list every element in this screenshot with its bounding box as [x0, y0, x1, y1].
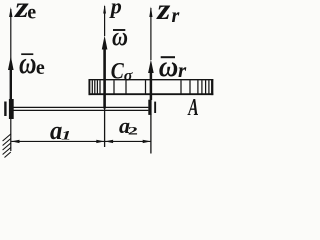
label z_r: [156, 0, 179, 27]
svg-text:C: C: [111, 58, 125, 84]
bearing right (hub blocks at shaft end): [148, 100, 156, 115]
svg-text:z: z: [156, 0, 171, 26]
svg-text:ω: ω: [112, 23, 128, 51]
svg-text:r: r: [178, 58, 187, 82]
svg-text:1: 1: [61, 128, 71, 142]
label ω̄_e: [19, 46, 45, 81]
svg-text:2: 2: [128, 124, 138, 138]
svg-text:ω: ω: [159, 51, 179, 84]
svg-text:r: r: [172, 5, 180, 27]
axis line z_r (right vertical line): [149, 7, 152, 154]
rotor A (long disc body, sectioned rectangle): [89, 79, 214, 95]
label C_σ: [111, 58, 133, 85]
svg-text:σ: σ: [124, 68, 133, 85]
svg-text:e: e: [27, 2, 36, 24]
svg-text:ω: ω: [19, 46, 36, 81]
svg-text:p: p: [109, 0, 122, 18]
axis line p (middle vertical line): [103, 5, 106, 148]
bearing left (thrust bearing blocks): [4, 99, 14, 119]
label ω̄: [112, 23, 128, 51]
label a2: [119, 113, 138, 138]
axis line z_e (left vertical line): [9, 7, 12, 151]
svg-text:e: e: [36, 57, 45, 79]
label ω̄_r: [159, 51, 187, 84]
arrow ω̄_e (angular velocity arrow on left axis): [8, 56, 14, 100]
label a1: [50, 116, 71, 145]
dimension line a1: [11, 140, 104, 143]
svg-text:A: A: [187, 95, 199, 121]
label z_e: [14, 0, 36, 24]
dimension line a2: [105, 140, 151, 143]
shaft (double line): [14, 107, 149, 110]
arrow ω̄ (angular velocity arrow on p axis): [102, 36, 108, 109]
ground hatching (fixed support): [3, 134, 11, 158]
arrow ω̄_r (angular velocity arrow on right axis): [148, 60, 154, 101]
